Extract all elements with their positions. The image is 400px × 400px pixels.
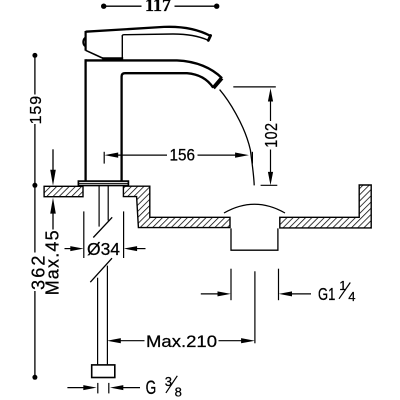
faucet lever bottom diagonal xyxy=(86,50,104,58)
drain U bracket xyxy=(231,228,278,250)
dim 156 line left xyxy=(116,154,167,156)
dim G3/8 right arrow xyxy=(110,385,140,390)
dim 102 down arrow xyxy=(268,172,273,185)
dim Max.210 right arrow xyxy=(241,338,255,343)
faucet lever inner line xyxy=(122,34,208,40)
faucet cartridge thick line xyxy=(102,57,123,60)
break slash upper xyxy=(93,217,112,237)
water stream xyxy=(220,90,255,186)
dim 159 dot mid xyxy=(32,183,37,188)
svg-text:G1: G1 xyxy=(318,285,335,305)
svg-text:1: 1 xyxy=(339,278,346,293)
faucet base inner line xyxy=(78,182,128,184)
drain dome arc xyxy=(224,204,285,213)
hose end fitting xyxy=(92,365,115,378)
shank line left xyxy=(98,186,100,227)
dim Max.210 line left xyxy=(119,340,145,342)
dim O34 ext line right xyxy=(123,211,125,258)
dim 117 line right xyxy=(175,5,217,7)
dim 159 line bottom xyxy=(34,124,36,185)
counter right piece with column xyxy=(280,185,371,228)
dim 102 bottom ext line xyxy=(261,184,278,186)
dim Max.45 up arrow xyxy=(50,198,56,214)
svg-text:4: 4 xyxy=(348,289,355,304)
faucet base plate xyxy=(78,181,128,185)
faucet spout tip face xyxy=(213,78,222,88)
dim 159 line top xyxy=(34,55,36,94)
dim 102 up arrow xyxy=(268,88,273,101)
faucet lever back vertical xyxy=(121,35,123,59)
dim 156 tick left xyxy=(103,152,105,164)
faucet lever tip face xyxy=(208,36,210,41)
faucet body left edge xyxy=(84,59,86,181)
faucet spout underside xyxy=(122,73,214,88)
dim G1 1/4 left arrow xyxy=(201,291,231,296)
svg-text:156: 156 xyxy=(169,146,195,165)
dim G1 1/4 ext line left xyxy=(230,269,232,301)
dim 362 line top xyxy=(34,185,36,252)
faucet body+spout top edge xyxy=(86,60,222,78)
svg-text:102: 102 xyxy=(263,123,282,148)
dim 117 line left xyxy=(104,5,142,7)
dim G1 1/4 ext line right xyxy=(278,269,280,301)
shank line right xyxy=(107,186,109,221)
faucet body right edge xyxy=(120,76,122,181)
hose line right xyxy=(106,266,108,365)
dim 117 dot right xyxy=(214,3,219,8)
drain centerline xyxy=(254,271,256,343)
hose line left xyxy=(97,278,99,365)
dim Max.210 line right xyxy=(219,340,243,342)
dim 117 dot left xyxy=(101,3,106,8)
svg-text:Ø34: Ø34 xyxy=(87,239,120,259)
svg-text:Max.210: Max.210 xyxy=(146,332,217,351)
dim G3/8 tick right xyxy=(108,383,110,394)
dim G3/8 text xyxy=(146,374,182,400)
faucet lever top edge xyxy=(86,27,211,36)
dim G1 1/4 right arrow xyxy=(279,291,311,296)
dim 362 line bottom xyxy=(34,291,36,377)
svg-text:8: 8 xyxy=(175,385,182,400)
dim Max.45 down arrow xyxy=(50,170,56,186)
counter right Z-section xyxy=(123,186,230,227)
faucet lever button ellipse xyxy=(83,38,86,47)
dim Max.45 upper line xyxy=(52,149,54,172)
dim G3/8 left arrow xyxy=(67,385,96,390)
dim 159 dot top xyxy=(32,53,37,58)
svg-text:159: 159 xyxy=(28,95,45,124)
dim 156 left arrow xyxy=(104,153,118,158)
dim 156 line right xyxy=(198,154,236,156)
svg-text:G: G xyxy=(146,377,157,399)
break slash lower xyxy=(90,258,112,282)
dim 102 line lower xyxy=(270,150,272,174)
dim Max.210 left arrow xyxy=(107,338,121,343)
counter left slab xyxy=(44,186,83,196)
svg-text:117: 117 xyxy=(145,0,171,15)
dim O34 right arrow xyxy=(124,246,146,251)
dim 362 dot bottom xyxy=(32,375,37,380)
dim G1 1/4 text xyxy=(318,278,355,304)
dim 102 top ext line xyxy=(233,86,275,88)
dim O34 ext line left xyxy=(83,211,85,258)
dim 156 right arrow xyxy=(235,153,249,158)
faucet lever left face xyxy=(84,31,86,51)
dim 156 tick right xyxy=(251,152,253,164)
dim Max.45 lower line xyxy=(52,212,54,230)
dim 102 line upper xyxy=(270,100,272,121)
dim G3/8 tick left xyxy=(97,383,99,394)
dim O34 left arrow xyxy=(65,246,84,251)
svg-text:3: 3 xyxy=(165,374,172,389)
svg-text:Max.45: Max.45 xyxy=(43,229,63,295)
